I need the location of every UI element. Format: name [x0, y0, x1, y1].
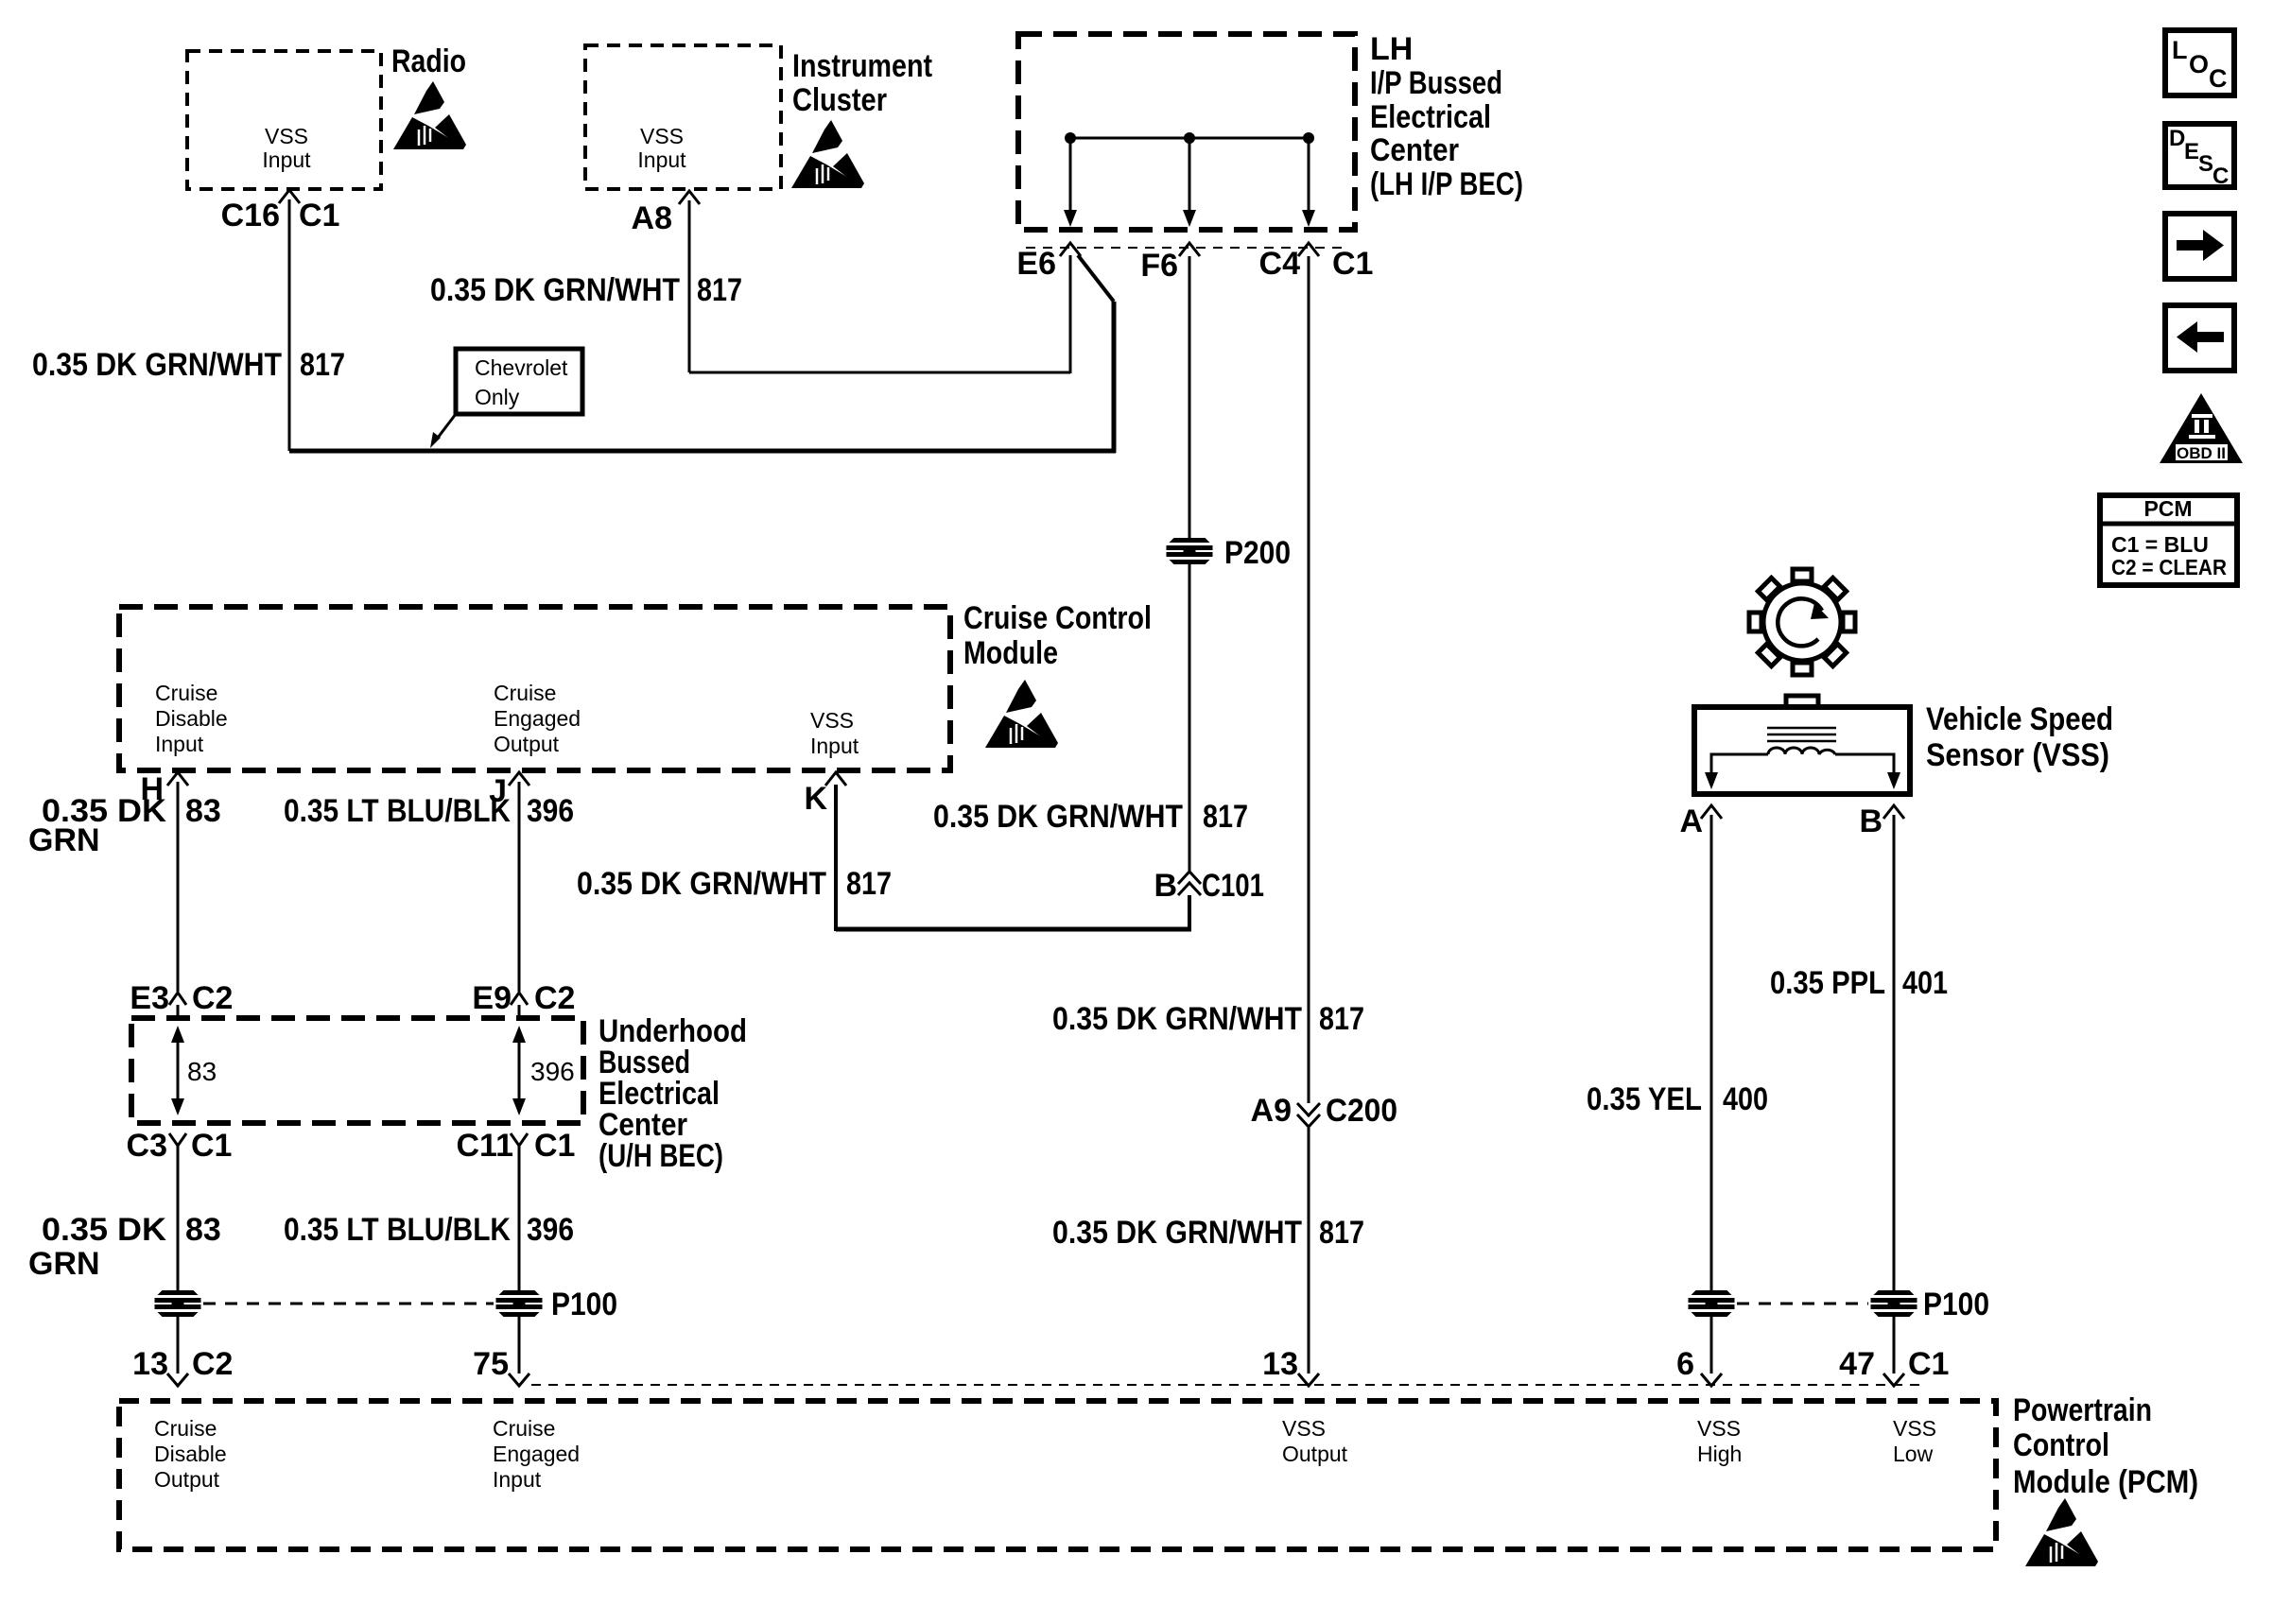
- svg-text:0.35 DK GRN/WHT: 0.35 DK GRN/WHT: [933, 799, 1183, 835]
- pin C16 connector Y at Radio: [279, 190, 300, 203]
- gear wheel symbol above VSS: [1749, 569, 1855, 675]
- wire stub E3 into U/H BEC: [177, 1005, 180, 1021]
- svg-text:E9: E9: [472, 980, 512, 1016]
- pin A connector Y: [1701, 805, 1722, 819]
- svg-text:C2: C2: [192, 980, 233, 1016]
- svg-text:K: K: [804, 781, 827, 817]
- svg-text:A: A: [1679, 803, 1703, 839]
- wire 817 vertical below K: [834, 785, 838, 931]
- Cruise Control Module ESD symbol: [985, 680, 1058, 748]
- dashed tie between left P100 splices: [203, 1303, 494, 1305]
- wire 817 horizontal from A8 to E6: [689, 371, 1070, 374]
- svg-text:Engaged: Engaged: [493, 1442, 580, 1466]
- svg-text:B: B: [1154, 868, 1177, 904]
- svg-text:VSS: VSS: [1697, 1416, 1741, 1441]
- pin H connector Y: [167, 772, 188, 786]
- svg-text:VSS: VSS: [810, 708, 854, 733]
- internal wire with arrow to F6: [1183, 138, 1196, 227]
- wire label 0.35 DK GRN 83 (upper): [28, 793, 221, 858]
- internal pass-through arrow 396: [512, 1026, 526, 1115]
- svg-text:L: L: [2172, 36, 2188, 64]
- svg-text:817: 817: [1319, 1215, 1364, 1251]
- wire 396 from J down to E9: [518, 782, 521, 992]
- svg-text:Control: Control: [2013, 1427, 2109, 1463]
- svg-text:VSS: VSS: [265, 124, 308, 148]
- splice P100 on wire 401: [1871, 1290, 1917, 1317]
- legend PCM connector colors box: [2100, 495, 2237, 585]
- pin A8 connector Y at Instrument Cluster: [679, 191, 700, 204]
- pin label A9 / connector C200: [1251, 1093, 1397, 1129]
- connector C3 Y: [169, 1133, 186, 1146]
- PCM ESD symbol: [2025, 1498, 2098, 1566]
- pin label C11 / connector C1: [457, 1128, 576, 1164]
- svg-text:C: C: [2209, 64, 2228, 93]
- svg-text:C2 = CLEAR: C2 = CLEAR: [2111, 555, 2227, 579]
- wire label 0.35 DK GRN/WHT 817 (F6 run): [933, 799, 1248, 835]
- pin label C4 / connector C1: [1259, 246, 1374, 282]
- svg-text:Engaged: Engaged: [494, 706, 581, 731]
- svg-text:0.35 YEL: 0.35 YEL: [1587, 1081, 1702, 1117]
- svg-text:0.35 DK GRN/WHT: 0.35 DK GRN/WHT: [577, 866, 826, 902]
- svg-text:0.35 LT BLU/BLK: 0.35 LT BLU/BLK: [284, 1212, 511, 1248]
- svg-text:817: 817: [846, 866, 892, 902]
- wire 400 from P100 to PCM pin 6: [1710, 1315, 1713, 1373]
- svg-text:Low: Low: [1893, 1442, 1934, 1466]
- svg-text:C1: C1: [534, 1128, 575, 1164]
- svg-text:(LH I/P BEC): (LH I/P BEC): [1370, 166, 1523, 202]
- VSS title: [1926, 701, 2113, 773]
- pin K connector Y: [825, 772, 846, 786]
- VSS coil: [1768, 748, 1835, 754]
- Cruise Control Module title: [963, 600, 1152, 671]
- PCM title: [2013, 1392, 2198, 1500]
- pin 47/C1 connector Y into PCM: [1883, 1373, 1904, 1386]
- wire 400 from A down to P100: [1710, 815, 1713, 1294]
- svg-text:(U/H BEC): (U/H BEC): [599, 1138, 723, 1174]
- svg-text:B: B: [1859, 803, 1883, 839]
- connector face line below LH I/P BEC: [1026, 247, 1343, 249]
- VSS internal lead to pin B with arrow: [1835, 754, 1900, 789]
- dashed tie between right P100 splices: [1737, 1303, 1868, 1305]
- svg-text:Output: Output: [1282, 1442, 1348, 1466]
- connector C200 chevrons (pin A9): [1297, 1103, 1320, 1127]
- wire diagonal into E6: [1078, 255, 1114, 302]
- wire 817 below C101: [1188, 895, 1191, 929]
- Vehicle Speed Sensor box: [1694, 707, 1910, 794]
- svg-text:Input: Input: [155, 732, 204, 756]
- svg-text:396: 396: [527, 1212, 574, 1248]
- wire label 0.35 LT BLU/BLK 396 (lower): [284, 1212, 574, 1248]
- svg-text:Cruise: Cruise: [493, 1416, 555, 1441]
- junction dot C4 branch: [1303, 132, 1314, 144]
- svg-text:P100: P100: [551, 1287, 617, 1322]
- svg-text:C11: C11: [457, 1128, 514, 1164]
- wire label 0.35 YEL 400: [1587, 1081, 1768, 1117]
- svg-text:0.35 DK GRN/WHT: 0.35 DK GRN/WHT: [430, 272, 680, 308]
- svg-text:83: 83: [185, 793, 221, 829]
- svg-text:817: 817: [300, 347, 345, 383]
- heavy wire 817 horizontal (Chevrolet only run): [289, 449, 1116, 454]
- svg-text:0.35 DK: 0.35 DK: [42, 1212, 166, 1248]
- svg-text:Disable: Disable: [155, 706, 228, 731]
- svg-text:396: 396: [527, 793, 574, 829]
- svg-text:Only: Only: [475, 385, 520, 409]
- pin B connector Y: [1883, 805, 1904, 819]
- junction dot F6 branch: [1184, 132, 1195, 144]
- wire 817 from F6 down to P200: [1189, 256, 1191, 542]
- svg-text:C101: C101: [1202, 868, 1264, 904]
- svg-text:C2: C2: [534, 980, 575, 1016]
- svg-text:13: 13: [1262, 1346, 1298, 1382]
- icon DESC box: [2165, 124, 2234, 189]
- svg-text:C1 = BLU: C1 = BLU: [2111, 532, 2209, 557]
- svg-text:83: 83: [185, 1212, 221, 1248]
- svg-text:Module (PCM): Module (PCM): [2013, 1464, 2198, 1500]
- wire 83 from H down to E3: [177, 782, 180, 992]
- svg-text:OBD II: OBD II: [2177, 444, 2226, 462]
- Chevrolet Only callout box: [456, 349, 582, 414]
- internal wire with arrow to C4: [1302, 138, 1315, 227]
- svg-text:Cruise: Cruise: [494, 681, 556, 705]
- svg-text:Output: Output: [154, 1467, 220, 1492]
- icon right-arrow box: [2165, 214, 2234, 279]
- svg-text:LH: LH: [1370, 31, 1413, 67]
- Radio module box: [187, 51, 381, 189]
- svg-text:6: 6: [1676, 1346, 1694, 1382]
- svg-text:Instrument: Instrument: [792, 48, 932, 84]
- wire label 0.35 DK GRN/WHT 817 (instrument cluster): [430, 272, 742, 308]
- splice P200: [1167, 538, 1213, 564]
- svg-text:C1: C1: [1908, 1346, 1949, 1382]
- svg-text:Vehicle Speed: Vehicle Speed: [1926, 701, 2113, 737]
- svg-text:0.35 DK GRN/WHT: 0.35 DK GRN/WHT: [1052, 1215, 1302, 1251]
- svg-text:Input: Input: [637, 147, 686, 172]
- svg-text:P100: P100: [1923, 1287, 1989, 1322]
- connector C11 Y: [511, 1133, 528, 1146]
- wire 817 vertical below E6: [1069, 255, 1072, 373]
- svg-text:0.35 PPL: 0.35 PPL: [1770, 965, 1885, 1001]
- pin 6 connector Y into PCM: [1701, 1373, 1722, 1386]
- splice P100 on wire 83: [155, 1290, 201, 1317]
- svg-text:Sensor (VSS): Sensor (VSS): [1926, 737, 2109, 773]
- svg-text:396: 396: [530, 1057, 575, 1086]
- svg-text:Disable: Disable: [154, 1442, 227, 1466]
- svg-text:VSS: VSS: [1282, 1416, 1326, 1441]
- splice P100 on wire 400: [1689, 1290, 1735, 1317]
- svg-text:C1: C1: [191, 1128, 232, 1164]
- svg-text:E3: E3: [130, 980, 169, 1016]
- Cruise Control Module box: [119, 607, 950, 770]
- pin 75 connector Y into PCM: [509, 1373, 529, 1386]
- svg-text:F6: F6: [1140, 248, 1178, 284]
- svg-text:C: C: [2212, 164, 2229, 189]
- pin C4 connector Y: [1298, 243, 1319, 256]
- Instrument Cluster title: [792, 48, 932, 118]
- svg-text:Powertrain: Powertrain: [2013, 1392, 2152, 1428]
- svg-text:GRN: GRN: [28, 822, 100, 858]
- svg-text:Electrical: Electrical: [1370, 99, 1491, 135]
- svg-text:75: 75: [473, 1346, 509, 1382]
- wire label 0.35 DK GRN/WHT 817 (VSS output lower): [1052, 1215, 1364, 1251]
- pin label C3 / connector C1: [127, 1128, 233, 1164]
- wire 83 from C3 down to P100: [177, 1146, 180, 1294]
- svg-text:Cruise Control: Cruise Control: [963, 600, 1152, 636]
- VSS mounting tab: [1786, 696, 1818, 709]
- icon OBD II triangle: [2160, 393, 2243, 463]
- svg-text:High: High: [1697, 1442, 1742, 1466]
- svg-text:817: 817: [697, 272, 742, 308]
- connector C101 chevrons (pin B): [1178, 872, 1201, 895]
- svg-text:Center: Center: [1370, 132, 1459, 168]
- svg-text:C4: C4: [1259, 246, 1301, 282]
- svg-text:E: E: [2184, 139, 2199, 164]
- wire 817 from Radio C16 down: [288, 199, 291, 451]
- pin label C16 / connector C1: [221, 198, 340, 233]
- icon LOC box: [2165, 30, 2234, 95]
- svg-text:S: S: [2198, 151, 2213, 177]
- wire label 0.35 PPL 401: [1770, 965, 1948, 1001]
- svg-text:C200: C200: [1326, 1093, 1397, 1129]
- svg-text:PCM: PCM: [2143, 496, 2192, 521]
- Instrument Cluster module box: [585, 45, 781, 189]
- svg-text:Input: Input: [810, 734, 859, 758]
- svg-text:401: 401: [1902, 965, 1948, 1001]
- junction dot E6 branch: [1065, 132, 1076, 144]
- pin 13/C2 connector Y into PCM: [167, 1373, 188, 1386]
- wire 817 from P200 down to C101: [1189, 562, 1191, 872]
- LH I/P Bussed Electrical Center box: [1018, 34, 1355, 230]
- wire 817 from A8 down: [688, 200, 691, 372]
- pin E6 connector Y: [1060, 243, 1081, 256]
- wire label 0.35 DK GRN/WHT 817 (K run): [577, 866, 892, 902]
- svg-text:817: 817: [1203, 799, 1248, 835]
- svg-text:Module: Module: [963, 635, 1058, 671]
- VSS core lines: [1767, 728, 1836, 741]
- svg-text:Cluster: Cluster: [792, 82, 887, 118]
- connector E3 lambda: [169, 993, 186, 1005]
- svg-text:C1: C1: [299, 198, 339, 233]
- svg-text:O: O: [2189, 50, 2209, 78]
- PCM connector face dashed line: [531, 1384, 1919, 1386]
- Instrument Cluster ESD symbol: [791, 120, 864, 188]
- pin label E3 / connector C2: [130, 980, 233, 1016]
- svg-text:Cruise: Cruise: [154, 1416, 217, 1441]
- svg-text:VSS: VSS: [1893, 1416, 1936, 1441]
- pin label 47 / connector C1: [1839, 1346, 1949, 1382]
- icon left-arrow box: [2165, 305, 2234, 371]
- wire label 0.35 DK GRN/WHT 817 (VSS output upper): [1052, 1001, 1364, 1037]
- internal pass-through arrow 83: [171, 1026, 184, 1115]
- pin label 13 / connector C2: [132, 1346, 233, 1382]
- svg-text:C3: C3: [127, 1128, 167, 1164]
- wire 817 from C4 down to C200: [1308, 256, 1310, 1103]
- wire 401 from B down to P100: [1893, 815, 1896, 1294]
- wire 396 from P100 to PCM pin 75: [518, 1315, 521, 1373]
- svg-text:C16: C16: [221, 198, 280, 233]
- connector E9 lambda: [511, 993, 528, 1005]
- svg-text:E6: E6: [1016, 246, 1056, 282]
- VSS internal lead to pin A with arrow: [1705, 754, 1768, 789]
- heavy wire 817 vertical riser to E6: [1112, 302, 1117, 453]
- wire label 0.35 LT BLU/BLK 396 (upper): [284, 793, 574, 829]
- svg-text:Output: Output: [494, 732, 560, 756]
- svg-text:Chevrolet: Chevrolet: [475, 355, 568, 380]
- svg-text:C2: C2: [192, 1346, 233, 1382]
- wire 401 from P100 to PCM pin 47: [1893, 1315, 1896, 1373]
- pin label B / connector C101: [1154, 868, 1264, 904]
- svg-text:Cruise: Cruise: [155, 681, 217, 705]
- svg-text:0.35 DK GRN/WHT: 0.35 DK GRN/WHT: [32, 347, 282, 383]
- svg-text:13: 13: [132, 1346, 168, 1382]
- Powertrain Control Module box: [119, 1401, 1996, 1549]
- svg-text:P200: P200: [1224, 535, 1291, 571]
- pin 13 connector Y into PCM (VSS output): [1298, 1373, 1319, 1386]
- wire 817 from C200 down to PCM pin 13: [1308, 1126, 1310, 1373]
- wire 817 horizontal from K to C101: [836, 927, 1191, 932]
- LH I/P BEC title: [1370, 31, 1523, 202]
- svg-text:A8: A8: [632, 200, 672, 236]
- svg-text:400: 400: [1723, 1081, 1768, 1117]
- Radio ESD symbol: [393, 81, 466, 149]
- wire 83 from P100 to PCM pin 13: [177, 1315, 180, 1373]
- svg-text:0.35 DK GRN/WHT: 0.35 DK GRN/WHT: [1052, 1001, 1302, 1037]
- splice P100 on wire 396: [496, 1290, 543, 1317]
- wire 396 from C11 down to P100: [518, 1146, 521, 1294]
- svg-text:Input: Input: [493, 1467, 542, 1492]
- wire stub E9 into U/H BEC: [518, 1005, 521, 1021]
- U/H BEC title: [599, 1013, 747, 1174]
- svg-text:Input: Input: [262, 147, 311, 172]
- svg-text:C1: C1: [1332, 246, 1373, 282]
- svg-text:D: D: [2169, 126, 2185, 151]
- svg-text:A9: A9: [1251, 1093, 1292, 1129]
- svg-text:83: 83: [187, 1057, 217, 1086]
- pin label E9 / connector C2: [472, 980, 575, 1016]
- pin F6 connector Y: [1179, 243, 1200, 256]
- internal wire with arrow to E6: [1064, 138, 1077, 227]
- Chevrolet Only pointer arrow: [430, 414, 456, 448]
- wire label 0.35 DK GRN 83 (lower): [28, 1212, 221, 1282]
- svg-text:VSS: VSS: [640, 124, 684, 148]
- pin J connector Y: [509, 772, 529, 786]
- svg-text:47: 47: [1839, 1346, 1875, 1382]
- svg-text:817: 817: [1319, 1001, 1364, 1037]
- svg-text:0.35 LT BLU/BLK: 0.35 LT BLU/BLK: [284, 793, 511, 829]
- svg-text:I/P Bussed: I/P Bussed: [1370, 65, 1502, 101]
- svg-text:Radio: Radio: [391, 43, 466, 79]
- bus wire inside LH I/P BEC: [1070, 137, 1309, 140]
- wire label 0.35 DK GRN/WHT 817 (radio): [32, 347, 345, 383]
- Underhood Bussed Electrical Center box: [131, 1018, 583, 1123]
- svg-text:GRN: GRN: [28, 1246, 100, 1282]
